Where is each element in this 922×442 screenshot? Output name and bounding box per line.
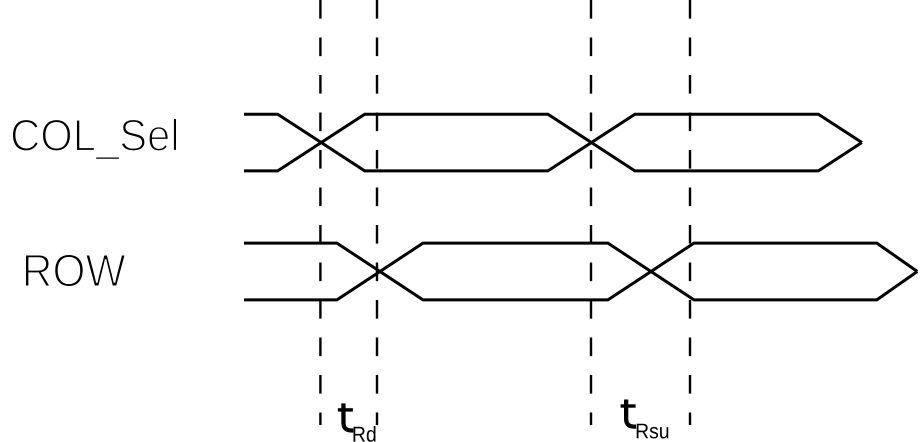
signal name label COL_Sel (12, 118, 177, 159)
COL_Sel bus waveform upper trace (244, 114, 862, 171)
dashed timing guide line 4 (tRsu end, at ROW valid point) (689, 0, 691, 425)
dashed timing guide line 2 (tRd end, at ROW transition 1) (376, 0, 378, 425)
dashed timing guide line 3 (tRsu start, at COL_Sel transition 2) (590, 0, 592, 425)
ROW bus waveform lower trace (244, 243, 917, 300)
dashed timing guide line 1 (tRd start, at COL_Sel transition 1) (319, 0, 321, 425)
timing label tRd : letter t (338, 403, 353, 430)
ROW bus waveform upper trace (244, 243, 917, 300)
timing label tRd : subscript Rd (354, 426, 376, 442)
timing label tRsu : letter t (621, 400, 636, 427)
signal name label ROW (25, 254, 125, 287)
timing label tRsu : subscript Rsu (637, 424, 669, 439)
COL_Sel bus waveform lower trace (244, 114, 862, 171)
